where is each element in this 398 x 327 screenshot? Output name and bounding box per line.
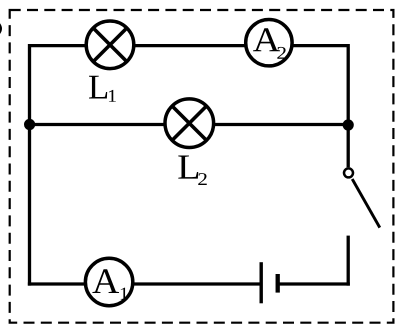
switch blade (open) [352,179,380,228]
lamp L2 (circle with X) [165,99,214,148]
ammeter A2 label: letter A [253,28,280,51]
wire middle branch (through L2) [30,123,349,126]
wire right upper vertical (top corner down to switch) [347,44,350,167]
label L2: letter L [178,155,198,178]
node junction left (middle branch / left wire) [24,119,35,130]
ammeter A1 (circle) [85,258,132,305]
label L2: subscript 2 [198,173,207,185]
partial ")" glyph fragment clipped at left image edge [0,23,1,34]
ammeter A2 label: subscript 2 [277,47,286,59]
battery cell: short negative plate [276,274,280,293]
battery cell: long positive plate [260,262,263,303]
wire right lower vertical (below switch) [347,236,350,286]
node junction right (middle branch / right wire) [343,119,354,130]
switch contact circle [344,168,353,177]
ammeter A1 label: subscript 1 [121,288,128,300]
label L1: letter L [89,76,107,99]
wire left vertical [28,44,31,286]
lamp L1 (circle with X) [86,21,134,69]
wire top horizontal (through L1 and A2) [30,44,349,47]
wire bottom left (through A1 to battery) [28,282,260,285]
wire bottom right (battery to right corner) [278,282,350,285]
ammeter A2 (circle) [246,20,292,66]
label L1: subscript 1 [109,90,116,102]
ammeter A1 label: letter A [92,269,119,293]
